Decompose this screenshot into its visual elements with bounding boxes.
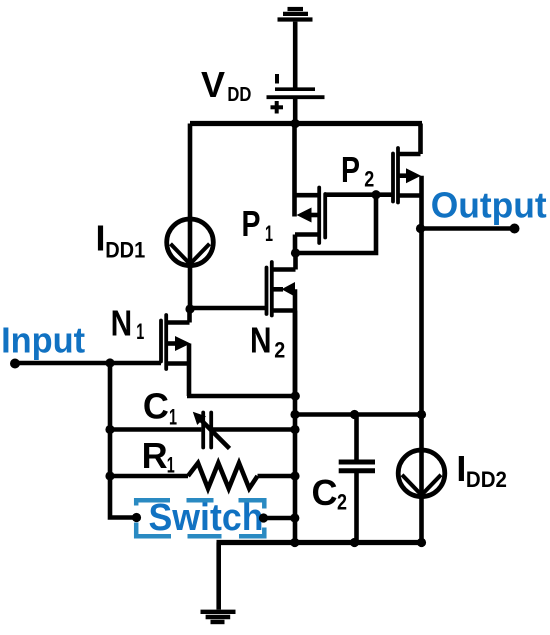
svg-text:Output: Output	[431, 185, 547, 226]
ground (top, inverted)	[278, 9, 313, 20]
svg-text:N: N	[111, 303, 133, 344]
node: column junctions	[291, 391, 300, 400]
resistor R1	[110, 463, 295, 489]
node: input junction	[105, 358, 114, 367]
node: switch left terminal	[132, 513, 141, 522]
wire: top ground stem	[293, 22, 298, 88]
wire: battery to rail	[293, 99, 298, 124]
node: C2 top junction	[350, 410, 359, 419]
svg-text:1: 1	[265, 221, 273, 246]
svg-text:C: C	[312, 472, 338, 513]
label VDD	[201, 64, 251, 106]
svg-text:Switch: Switch	[149, 497, 264, 539]
node: output junction	[416, 224, 425, 233]
label N2	[250, 320, 285, 363]
label C1	[143, 386, 177, 430]
node: P1 drain junction	[291, 248, 300, 257]
capacitor C2	[339, 415, 375, 543]
node: R1 right junction	[290, 471, 299, 480]
switch box (dashed)	[134, 498, 267, 539]
label N1	[111, 303, 145, 344]
node: C1 left junction	[105, 425, 114, 434]
transistor N2	[267, 253, 296, 397]
node: C1 right junction	[290, 425, 299, 434]
svg-text:1: 1	[169, 405, 177, 430]
wire: column to right column at y414.5	[295, 412, 422, 417]
svg-text:2: 2	[337, 490, 347, 515]
wire: P1 source drop from rail	[292, 124, 297, 217]
label IDD1	[96, 218, 146, 263]
wire: N1 drain to N2 gate	[190, 306, 267, 311]
wire: P1/P2 gate wire	[325, 192, 393, 197]
transistor P1	[295, 188, 326, 254]
svg-text:DD: DD	[227, 84, 251, 106]
node: R1 left junction	[105, 471, 114, 480]
wire: ground stem bottom	[216, 543, 221, 610]
label P2	[341, 149, 374, 192]
svg-text:P: P	[242, 203, 261, 244]
current source IDD2	[398, 450, 445, 497]
capacitor C1	[110, 412, 295, 449]
svg-text:Input: Input	[1, 320, 85, 361]
wire: mid node column	[293, 311, 298, 543]
node: input terminal	[10, 359, 20, 369]
transistor P2	[393, 124, 422, 203]
svg-text:I: I	[96, 218, 106, 259]
label R1	[142, 435, 175, 477]
wire: input	[15, 361, 161, 366]
svg-text:C: C	[143, 386, 169, 427]
svg-text:2: 2	[274, 337, 285, 362]
node: switch right terminal	[259, 513, 268, 522]
wire: switch right to column	[264, 516, 296, 521]
svg-text:N: N	[250, 320, 272, 361]
svg-text:DD2: DD2	[466, 467, 507, 492]
svg-text:2: 2	[364, 167, 374, 192]
wire: bottom rail	[217, 540, 422, 545]
svg-text:V: V	[201, 64, 225, 105]
svg-text:1: 1	[136, 319, 144, 344]
node: output terminal	[510, 224, 520, 234]
node: battery junction	[291, 119, 300, 128]
wire: N1 source to node column	[187, 394, 295, 399]
current source IDD1	[167, 219, 214, 266]
wire: output	[421, 226, 515, 231]
label IDD2	[456, 448, 507, 492]
wire: left drop rail to N1 drain	[188, 124, 193, 310]
node: right column top junction	[417, 410, 426, 419]
node: N1 drain junction	[185, 304, 194, 313]
svg-text:1: 1	[167, 452, 175, 477]
wire: input column down	[110, 363, 137, 518]
battery V_DD	[267, 74, 325, 114]
svg-text:DD1: DD1	[105, 237, 145, 262]
node: rail junctions	[350, 538, 359, 547]
svg-text:R: R	[142, 435, 168, 476]
transistor N1	[161, 309, 191, 396]
label P1	[242, 203, 274, 246]
wire: top VDD rail	[190, 121, 422, 126]
label C2	[312, 472, 348, 515]
wire: P1 diode connection	[296, 195, 377, 253]
ground (bottom)	[201, 612, 236, 622]
svg-text:P: P	[341, 149, 360, 190]
node: gate junction	[371, 190, 380, 199]
wire: right column (P2 drain down to bottom rail)	[419, 176, 424, 543]
